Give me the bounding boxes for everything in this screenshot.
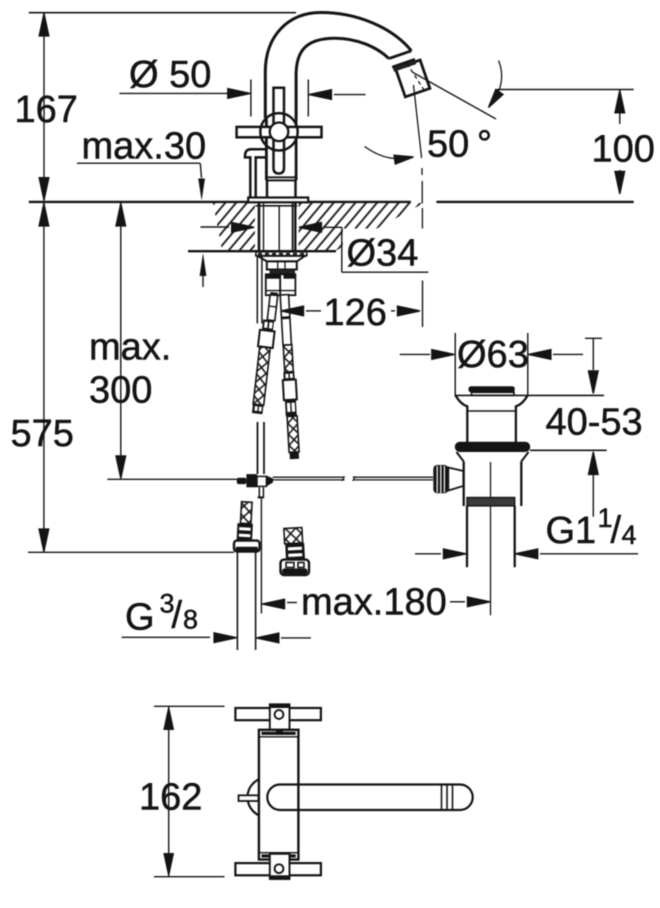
svg-text:G: G <box>125 597 155 639</box>
svg-text:max.30: max.30 <box>82 126 207 168</box>
svg-text:Ø34: Ø34 <box>347 233 419 275</box>
svg-text:40-53: 40-53 <box>546 402 643 444</box>
svg-text:/: / <box>172 595 183 637</box>
svg-text:/: / <box>611 510 622 552</box>
svg-text:Ø63: Ø63 <box>457 334 529 376</box>
svg-text:50 °: 50 ° <box>427 124 492 166</box>
svg-text:G1: G1 <box>546 510 597 552</box>
svg-text:Ø 50: Ø 50 <box>129 54 211 96</box>
svg-text:100: 100 <box>592 129 655 171</box>
svg-text:167: 167 <box>15 89 78 131</box>
svg-text:max.: max. <box>89 327 171 369</box>
svg-text:8: 8 <box>183 605 198 635</box>
svg-text:300: 300 <box>89 370 152 412</box>
svg-text:162: 162 <box>139 777 202 819</box>
svg-text:max.180: max.180 <box>301 582 447 624</box>
svg-text:126: 126 <box>324 292 387 334</box>
svg-text:575: 575 <box>11 413 74 455</box>
svg-text:4: 4 <box>622 520 637 550</box>
